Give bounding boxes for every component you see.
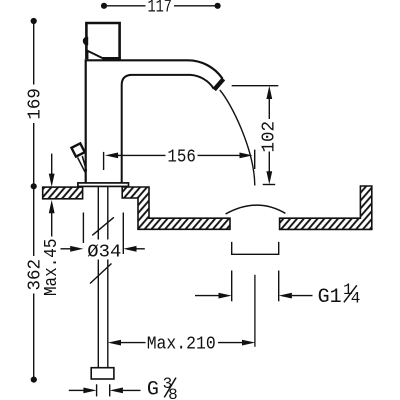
pipe break diagonal 2 bbox=[90, 264, 112, 284]
supply fitting block bbox=[91, 368, 114, 379]
dim Max.210 right line and arrow bbox=[218, 342, 243, 344]
dim G1 1/4 right extension line bbox=[278, 271, 280, 302]
supply pipe left line bbox=[97, 186, 99, 239]
svg-text:102: 102 bbox=[260, 121, 280, 153]
dim G 3/8 left line and arrow bbox=[69, 389, 84, 391]
dim 102 bottom arrow bbox=[268, 152, 270, 173]
dim G1 1/4 right arrow bbox=[279, 293, 292, 299]
drain centreline bbox=[254, 275, 256, 347]
svg-text:G1: G1 bbox=[318, 286, 342, 309]
drain tailpiece bbox=[232, 242, 279, 254]
svg-text:117: 117 bbox=[147, 0, 172, 17]
svg-text:156: 156 bbox=[167, 147, 196, 167]
spout end face bbox=[214, 79, 223, 90]
lever knob (tilted square) bbox=[71, 143, 84, 156]
base plate bbox=[78, 183, 129, 187]
dim G1 1/4 left extension line bbox=[231, 271, 233, 302]
faucet handle square bbox=[86, 23, 119, 59]
svg-text:4: 4 bbox=[351, 289, 361, 307]
dim 102: top extension line bbox=[232, 85, 279, 87]
drain dome arc bbox=[226, 205, 286, 214]
svg-text:8: 8 bbox=[168, 386, 178, 400]
svg-text:Ø34: Ø34 bbox=[87, 242, 121, 262]
handle neck line bbox=[87, 51, 89, 59]
dim G 3/8 ticks bbox=[96, 384, 98, 396]
dim Max.45: upper arrow bbox=[51, 154, 53, 174]
svg-text:169: 169 bbox=[26, 88, 46, 120]
counter mid band + step wall + left basin bottom (hatched) bbox=[122, 187, 230, 229]
water stream arc bbox=[220, 90, 255, 186]
dim 102 bottom extension line bbox=[263, 184, 276, 186]
dim O34 right arrow bbox=[123, 246, 136, 252]
supply pipe right line bbox=[107, 186, 109, 239]
dim O34 left extension line bbox=[82, 213, 84, 244]
dim O34 right extension line bbox=[122, 213, 124, 255]
handle left bump bbox=[83, 37, 92, 46]
handle diagonal cut bbox=[86, 50, 104, 59]
dim 169 left: line and dots bbox=[33, 21, 35, 186]
svg-text:Max.210: Max.210 bbox=[147, 334, 216, 354]
dim 156 right arrow bbox=[198, 154, 241, 156]
handle bottom bar bbox=[103, 57, 121, 60]
dim 117 top: dots and lines bbox=[104, 5, 218, 7]
dim G1 1/4 left arrow bbox=[195, 295, 219, 297]
pipe break diagonal 1 bbox=[92, 217, 114, 235]
dim Max.45 lower arrow bbox=[49, 200, 55, 213]
counter left band (hatched) bbox=[43, 187, 83, 199]
right basin bottom + right wall (hatched) bbox=[280, 186, 372, 229]
faucet body outer: left edge, top edge, outer spout curve bbox=[86, 60, 223, 183]
dim 156 left arrow bbox=[105, 153, 118, 159]
dim 102 top arrow bbox=[266, 86, 272, 99]
dim Max.210 left arrow bbox=[108, 340, 121, 346]
dim G 3/8 right arrow bbox=[110, 388, 123, 394]
dim 156: centre tick bbox=[103, 152, 105, 170]
dim 156 right tick bbox=[254, 150, 256, 169]
lever stem lines bbox=[78, 158, 86, 173]
svg-text:G: G bbox=[147, 379, 159, 400]
svg-text:Max.45: Max.45 bbox=[42, 239, 62, 297]
faucet body inner contour bbox=[122, 75, 214, 183]
dim O34 left arrow bbox=[61, 248, 72, 250]
dim 362 left: line and bottom dot bbox=[33, 186, 35, 379]
